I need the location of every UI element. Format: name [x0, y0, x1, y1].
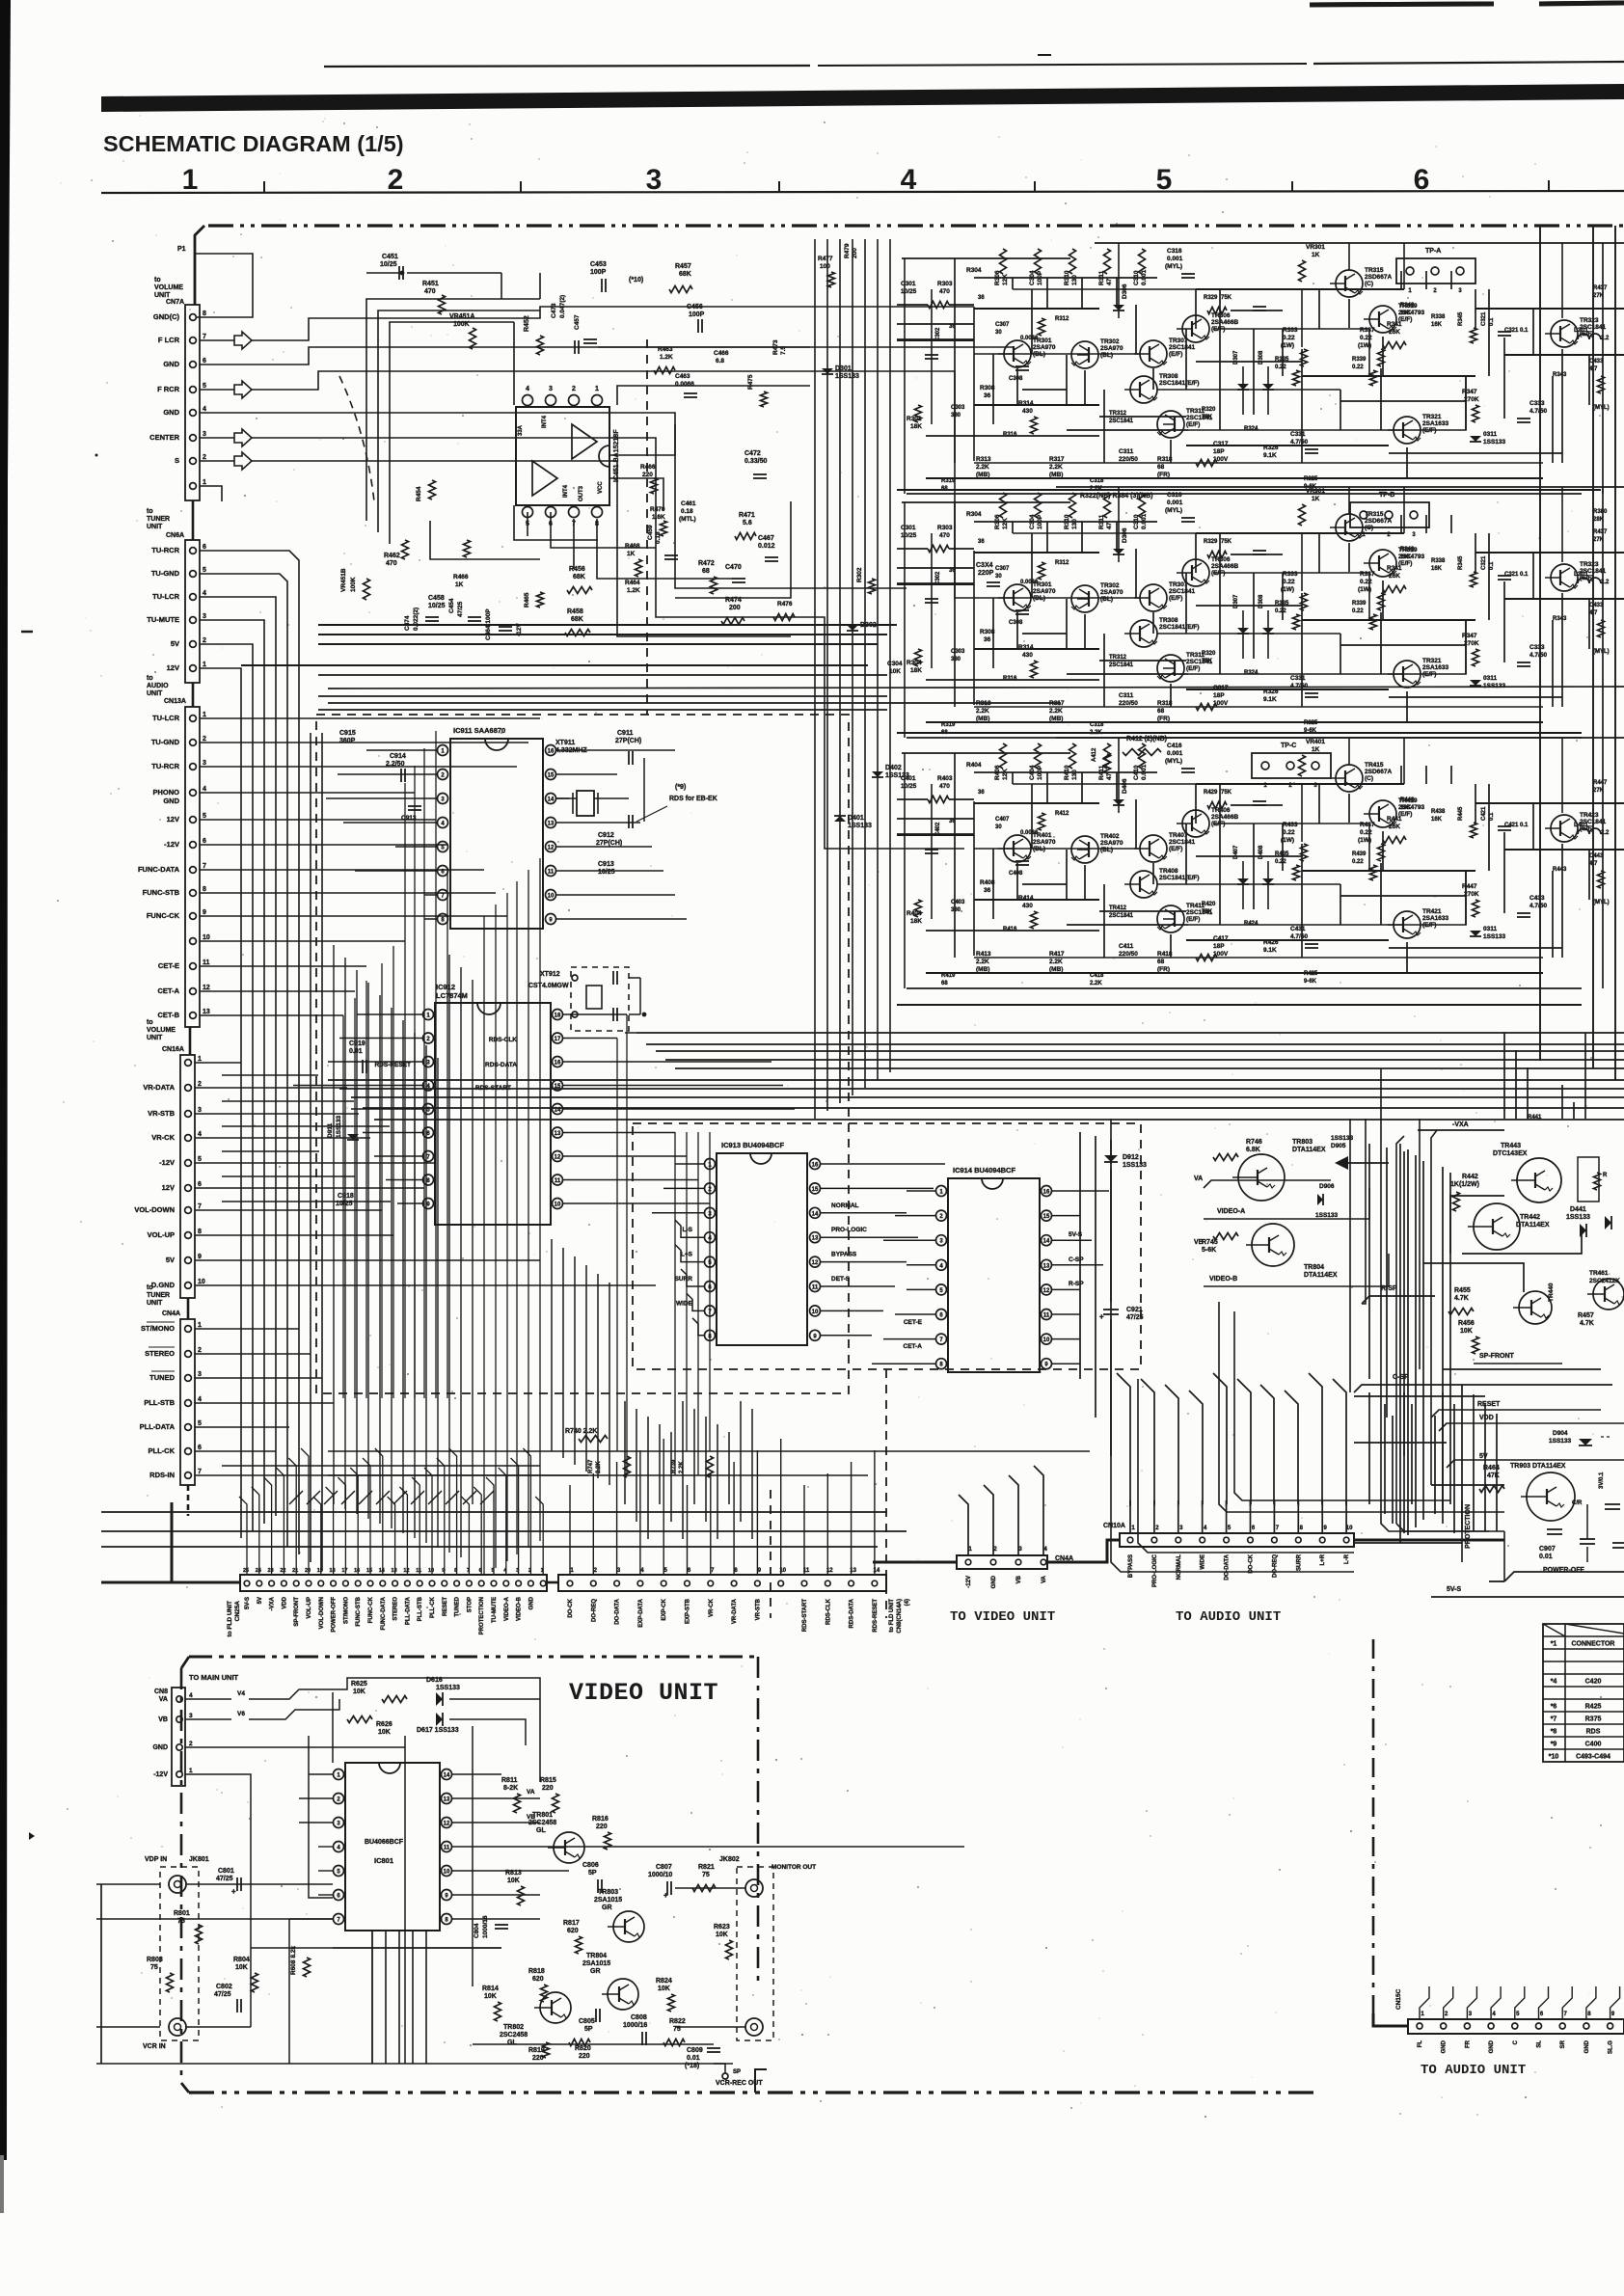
transistor TR315 2SD667A [1336, 270, 1363, 297]
svg-text:6: 6 [198, 1445, 202, 1451]
video unit border bottom right step [755, 2069, 767, 2093]
svg-text:C921: C921 [1126, 1307, 1143, 1313]
svg-text:GR: GR [602, 1904, 612, 1911]
svg-text:to: to [154, 277, 161, 284]
svg-text:IC913 BU4094BCF: IC913 BU4094BCF [721, 1141, 784, 1149]
svg-text:4: 4 [203, 406, 206, 413]
left mid horizontal 1168 [222, 1125, 390, 1127]
svg-text:2SA970: 2SA970 [1100, 840, 1123, 847]
svg-text:R420: R420 [1202, 902, 1216, 907]
CN13A pin 1 TU-LCR [190, 716, 197, 722]
IC913 pin 7 [705, 1306, 716, 1316]
svg-text:INT4: INT4 [563, 484, 569, 498]
wire between connectors [547, 1581, 558, 1584]
svg-text:68: 68 [1157, 464, 1165, 471]
wire CN4A pin7 run [195, 1474, 588, 1476]
svg-text:0.047(2): 0.047(2) [559, 295, 566, 318]
CN15C pin 6 SL [1536, 2023, 1542, 2029]
CN15C pin 3 FR [1464, 2023, 1470, 2029]
svg-text:(MB): (MB) [1049, 716, 1063, 722]
svg-text:47/25: 47/25 [214, 1991, 231, 1998]
svg-text:R338: R338 [1431, 558, 1446, 564]
svg-text:VR-STB: VR-STB [755, 1598, 761, 1620]
wire opamp top rail [501, 273, 502, 299]
CN14A pin 4 [637, 1580, 643, 1586]
left bottom jack column vertical [100, 1884, 102, 2064]
svg-text:5P: 5P [588, 1870, 597, 1877]
IC914 pin 14 [1042, 1235, 1052, 1246]
svg-text:L401: L401 [1574, 822, 1588, 828]
CN25A pin 5 [491, 1580, 497, 1586]
svg-text:-12V: -12V [153, 1771, 168, 1778]
svg-text:VB: VB [1194, 1239, 1204, 1246]
svg-text:470: 470 [939, 532, 950, 539]
IC911 pin 14 [546, 794, 556, 804]
wire to CN14A pin 5 [663, 1439, 664, 1575]
fan diagonal 2 [324, 1491, 338, 1504]
svg-text:TR412: TR412 [1109, 905, 1127, 911]
svg-text:15: 15 [366, 1568, 372, 1574]
wire CN13A pin7 run [200, 869, 484, 871]
table row line 3 [1543, 1661, 1624, 1662]
svg-text:D406: D406 [1122, 778, 1128, 794]
transistor TR306 2SA466B [1182, 559, 1209, 586]
svg-text:TR421: TR421 [1422, 908, 1442, 915]
svg-text:1SS133: 1SS133 [1483, 933, 1506, 940]
svg-text:10: 10 [812, 1310, 819, 1315]
svg-text:DO-REQ: DO-REQ [1272, 1554, 1278, 1578]
svg-text:CN8: CN8 [154, 1688, 168, 1695]
svg-text:L-R: L-R [1344, 1553, 1350, 1564]
resistor R410 130 [1069, 743, 1076, 769]
svg-text:0.0066: 0.0066 [1020, 830, 1039, 836]
svg-text:2: 2 [203, 454, 206, 461]
svg-text:R465: R465 [524, 592, 530, 608]
svg-text:CN16A: CN16A [162, 1046, 184, 1053]
channel left vertical x990 [954, 258, 956, 463]
table row line 10 [1543, 1748, 1624, 1750]
stray mark dot c [95, 454, 98, 457]
op-amp triangle B [532, 461, 557, 496]
CN13A pin 3 TU-RCR [190, 764, 197, 770]
top right corner marks thicker [1310, 4, 1494, 5]
svg-text:-12V: -12V [159, 1158, 175, 1167]
svg-text:VA: VA [527, 1789, 535, 1796]
svg-text:16: 16 [548, 749, 555, 755]
IC913 pin 15 [810, 1183, 821, 1194]
svg-text:27P(CH): 27P(CH) [615, 738, 641, 744]
svg-text:7: 7 [203, 863, 206, 870]
svg-text:12: 12 [812, 1260, 819, 1266]
mid col vertical 584 [562, 1248, 564, 1458]
JK802 wires [675, 1887, 745, 1889]
stray scan mark a [21, 631, 33, 634]
pre-fan vertical 648 [624, 1401, 626, 1504]
CN25A pin 9 [442, 1580, 447, 1586]
resistor R310 130 [1069, 249, 1076, 274]
wire above CN15C pin 9 [1610, 1986, 1620, 2019]
svg-text:UNIT: UNIT [147, 1300, 163, 1307]
svg-text:TR308: TR308 [1159, 373, 1178, 380]
svg-text:C301: C301 [901, 525, 916, 531]
CN16A pin 9 5V [185, 1257, 192, 1264]
channel A extra wire h4 [1186, 445, 1389, 446]
svg-text:0.18: 0.18 [655, 531, 662, 544]
svg-text:75K: 75K [1221, 539, 1232, 545]
svg-text:VCR IN: VCR IN [143, 2043, 166, 2050]
svg-text:16: 16 [1043, 1190, 1050, 1196]
wire CN13A pin3 run [200, 766, 517, 768]
svg-text:FUNC-CK: FUNC-CK [147, 911, 180, 920]
diode D904 1SS133 [1579, 1439, 1592, 1445]
svg-text:VB: VB [158, 1716, 168, 1723]
left extra vertical 12 [472, 980, 474, 1504]
resistor R411 47 [1104, 743, 1111, 769]
svg-text:PLL-DATA: PLL-DATA [405, 1596, 411, 1625]
mid col vertical 608 [585, 1265, 587, 1472]
svg-text:10K: 10K [507, 1877, 520, 1884]
top broken rule line [324, 66, 810, 67]
svg-text:0.01: 0.01 [687, 2055, 700, 2062]
svg-text:0.22: 0.22 [1283, 829, 1295, 836]
video unit inner verticals [371, 1931, 373, 2064]
svg-text:68: 68 [1157, 959, 1165, 965]
svg-text:7: 7 [198, 1469, 202, 1475]
svg-text:DET-S: DET-S [831, 1276, 851, 1283]
svg-text:D616: D616 [426, 1677, 443, 1684]
svg-text:47/25: 47/25 [1126, 1314, 1144, 1321]
svg-text:VR-DATA: VR-DATA [732, 1598, 738, 1624]
channel B pocket mid wires [1067, 673, 1188, 675]
svg-text:1SS133: 1SS133 [1123, 1162, 1147, 1169]
wire TU-GND run [200, 574, 287, 675]
svg-text:R413: R413 [976, 951, 991, 958]
CN7A pin 7 F LCR [190, 338, 197, 344]
svg-text:16K: 16K [1400, 805, 1412, 811]
IC914 right wires [1052, 1190, 1109, 1192]
CN14A pin 14 [872, 1580, 878, 1586]
svg-text:2: 2 [528, 1568, 531, 1574]
protection dense verticals [1368, 1392, 1370, 1504]
svg-text:9.1K: 9.1K [1263, 452, 1277, 459]
CN14A pin 11 [801, 1580, 807, 1586]
protection block bottom wires [1396, 1524, 1504, 1531]
svg-text:CN8(CN14A): CN8(CN14A) [897, 1599, 903, 1634]
transistor TR804 DTA114EX lower [1252, 1224, 1294, 1266]
left extra vertical 4 [379, 995, 381, 1524]
svg-text:R454: R454 [416, 486, 422, 501]
svg-text:R375: R375 [1585, 1716, 1602, 1723]
svg-text:220P: 220P [978, 570, 994, 577]
decoder-down long vertical 1 [1095, 1136, 1096, 1418]
svg-text:DO-DATA: DO-DATA [1225, 1553, 1231, 1580]
svg-text:4: 4 [526, 386, 529, 392]
decoder-down long vertical 4 [1386, 1148, 1388, 1418]
svg-text:2SA1633: 2SA1633 [1422, 915, 1448, 922]
CN25A pin 25 [244, 1580, 250, 1586]
svg-text:9-6K: 9-6K [1304, 979, 1317, 985]
svg-text:0.22: 0.22 [1360, 579, 1372, 585]
wire to CN10A pin 2 [1153, 1500, 1155, 1533]
svg-text:GND: GND [528, 1596, 534, 1609]
svg-text:D402: D402 [885, 765, 902, 771]
svg-text:TR323: TR323 [1580, 561, 1599, 568]
svg-text:0.1: 0.1 [1489, 317, 1495, 326]
heavy trunk line into CN25A extended [101, 1581, 240, 1584]
svg-text:2: 2 [388, 164, 404, 196]
vertical bus wire L6 [298, 675, 300, 1554]
wire CN7A-CN6A stem [192, 500, 195, 540]
channel C extra wire h6 [1196, 783, 1404, 785]
svg-text:C461: C461 [681, 500, 696, 507]
CN14A pin 13 [849, 1580, 854, 1586]
vertical trunk wire T2 [826, 239, 828, 1111]
CN4A-b pin 2 [990, 1559, 996, 1565]
transistor TR319 2SC4793 [1369, 306, 1396, 333]
wire TU-RCR run [200, 551, 299, 675]
wire to CN25A pin 22 [276, 1468, 284, 1575]
svg-text:10K: 10K [484, 1993, 497, 2000]
svg-text:C433: C433 [1529, 895, 1545, 902]
resistor C410 0.001 [1139, 743, 1146, 769]
wire to CN10A pin 9 [1321, 1500, 1323, 1533]
svg-text:SCHEMATIC DIAGRAM (1/5): SCHEMATIC DIAGRAM (1/5) [103, 131, 404, 156]
wire 5V run [200, 644, 253, 675]
svg-text:2: 2 [203, 637, 206, 644]
svg-text:SURR: SURR [675, 1276, 693, 1283]
svg-text:(BL): (BL) [1100, 352, 1113, 359]
svg-text:R479: R479 [844, 243, 851, 258]
svg-text:4.7/50: 4.7/50 [1529, 903, 1547, 909]
svg-text:C318: C318 [1090, 478, 1104, 484]
svg-text:R337: R337 [1360, 571, 1375, 578]
svg-text:RDS-DATA: RDS-DATA [850, 1598, 855, 1628]
svg-text:VIDEO UNIT: VIDEO UNIT [569, 1679, 718, 1707]
svg-text:C907: C907 [1539, 1546, 1556, 1553]
channel A extra resistor Rb [1598, 376, 1605, 393]
svg-text:RDS-IN: RDS-IN [149, 1471, 175, 1479]
svg-text:R816: R816 [592, 1816, 609, 1823]
svg-text:6: 6 [1414, 164, 1430, 196]
channel C extra wire h3 [974, 899, 1099, 901]
IC801 pin 9 [442, 1890, 452, 1901]
fan diagonal 5 [376, 1491, 390, 1504]
svg-text:36: 36 [984, 636, 991, 643]
IC801 pin 5 [334, 1866, 344, 1877]
vertical trunk wire T1 [814, 239, 816, 1119]
IC911 pin 5 [438, 842, 448, 852]
svg-text:UNIT: UNIT [154, 292, 171, 299]
resistor C310 0.001 [1139, 249, 1146, 274]
channel C pocket wires left [897, 798, 928, 800]
svg-text:R821: R821 [698, 1864, 715, 1871]
svg-text:68K: 68K [571, 616, 583, 623]
svg-text:D441: D441 [1570, 1206, 1586, 1213]
CN25A pin 21 [293, 1580, 299, 1586]
wire CN16A pin5 run [195, 1162, 436, 1164]
transistor TR302 2SA970 [1071, 585, 1098, 612]
diode D906 1SS133 [1317, 1194, 1323, 1205]
CN14A pin 10 [778, 1580, 784, 1586]
CN6A long feed wires [318, 624, 897, 626]
svg-text:13: 13 [548, 822, 555, 827]
CN25A pin 19 [318, 1580, 324, 1586]
svg-text:MONITOR OUT: MONITOR OUT [771, 1864, 816, 1871]
svg-text:GL: GL [536, 1827, 546, 1834]
IC912 pin 10 [553, 1199, 563, 1209]
svg-text:C321: C321 [1504, 328, 1519, 334]
wire CN13A pin8 run [200, 892, 496, 894]
channel B extra wire h6 [1196, 532, 1404, 534]
transistor TR323 2SC1841 [1551, 564, 1578, 591]
diode D307 (G247) [1237, 628, 1249, 634]
svg-text:C316: C316 [1167, 492, 1182, 499]
CN25A pin 12 [405, 1580, 411, 1586]
svg-text:2SA1633: 2SA1633 [1422, 420, 1448, 427]
svg-text:430: 430 [1022, 408, 1033, 415]
diodes right pair [1605, 1216, 1611, 1229]
svg-text:18K: 18K [910, 423, 922, 430]
CN15C pin 9 SL.G [1608, 2023, 1613, 2029]
svg-text:1: 1 [198, 1056, 202, 1063]
IC801 pin 2 [334, 1794, 344, 1804]
wire S run [200, 460, 234, 462]
svg-text:VIDEO-A: VIDEO-A [504, 1596, 510, 1621]
svg-text:7: 7 [467, 1568, 470, 1574]
svg-text:(MYL): (MYL) [1165, 758, 1182, 765]
svg-text:VR-STB: VR-STB [148, 1109, 176, 1118]
svg-text:12: 12 [403, 1568, 409, 1574]
svg-text:2SA970: 2SA970 [1100, 589, 1123, 596]
channel A extra resistor Ra [1039, 318, 1045, 336]
svg-text:R-SP: R-SP [1069, 1281, 1084, 1287]
CN8 pin 4 VA [176, 1696, 182, 1702]
channel B mesh horizontals [897, 582, 974, 584]
svg-text:C453: C453 [590, 261, 607, 268]
video mid rail [288, 1919, 290, 2064]
svg-text:R412: R412 [1055, 811, 1069, 817]
svg-text:4.7/50: 4.7/50 [1529, 652, 1547, 659]
svg-text:DO-REQ: DO-REQ [591, 1599, 597, 1622]
wire to CN25A pin 5 [486, 1477, 494, 1575]
dashed curve VR451A [339, 376, 374, 501]
svg-text:15: 15 [1043, 1214, 1050, 1220]
transistor TR311 2SC1841 [1157, 411, 1184, 438]
IC801 pin 12 [442, 1818, 452, 1828]
wire CN16A pin3 run [195, 1113, 359, 1115]
svg-text:R626: R626 [376, 1721, 392, 1728]
scan edge black strip left [0, 0, 11, 2160]
svg-text:JK802: JK802 [719, 1856, 740, 1863]
svg-text:C463: C463 [675, 373, 690, 380]
left mid horizontal 1246 [222, 1201, 391, 1202]
svg-text:C308: C308 [1009, 376, 1023, 382]
stray scan mark b [29, 1832, 35, 1840]
svg-text:SP-FRONT: SP-FRONT [294, 1597, 300, 1627]
right loop wire 7 [1111, 1369, 1354, 1572]
svg-text:(1W): (1W) [1358, 342, 1371, 349]
svg-text:to: to [147, 675, 153, 682]
diode D308 (G247) [1262, 384, 1274, 390]
heavy wire into CN15C [1373, 2013, 1408, 2026]
CN25A pin 18 [331, 1580, 337, 1586]
CN4A-b pin 1 [965, 1559, 971, 1565]
svg-text:R801: R801 [174, 1910, 190, 1917]
svg-text:CET-E: CET-E [904, 1319, 923, 1326]
svg-text:14: 14 [379, 1568, 386, 1574]
svg-text:D.GND: D.GND [151, 1281, 176, 1289]
ruler tick c [778, 181, 780, 192]
mid col vertical 632 [609, 1283, 610, 1485]
svg-text:CN7A: CN7A [166, 299, 184, 306]
channel left vertical x990 [954, 502, 956, 707]
IC914 pin 7 [936, 1334, 947, 1344]
svg-text:0.22: 0.22 [1352, 859, 1364, 865]
svg-text:2SC1841: 2SC1841 [1109, 913, 1134, 919]
svg-text:C411: C411 [1119, 943, 1134, 950]
svg-text:5.6: 5.6 [743, 520, 752, 527]
svg-text:C913: C913 [598, 861, 614, 868]
svg-text:4: 4 [198, 1396, 202, 1403]
CN25A pin 20 [306, 1580, 311, 1586]
svg-text:*9: *9 [1551, 1742, 1557, 1748]
svg-text:47/25: 47/25 [216, 1876, 233, 1882]
connector CN10A [1120, 1533, 1354, 1547]
svg-text:OUT3: OUT3 [579, 485, 584, 501]
CN13A pin 6 -12V [190, 842, 197, 849]
channel A extra wire h2 [1302, 375, 1475, 377]
pre-fan vertical 684 [659, 1424, 661, 1504]
svg-text:D401: D401 [848, 815, 864, 822]
svg-text:R314: R314 [1018, 400, 1034, 407]
CN25A pin 14 [380, 1580, 386, 1586]
svg-text:2SC2412K: 2SC2412K [1589, 1278, 1620, 1284]
mid col vertical 596 [574, 1256, 576, 1465]
transistor TR321 2SA1633 [1394, 417, 1421, 444]
svg-text:V6: V6 [237, 1711, 245, 1717]
channel A extra wire h6 [1196, 288, 1404, 290]
diode D307 (G247) [1237, 384, 1249, 390]
svg-text:10K: 10K [378, 1729, 391, 1736]
channel A extra verticals [1195, 289, 1197, 329]
svg-text:620: 620 [567, 1928, 579, 1934]
CN25A pin 23 [269, 1580, 275, 1586]
svg-text:2SC1841: 2SC1841 [1109, 662, 1134, 668]
svg-text:(MYL): (MYL) [1165, 507, 1182, 514]
pre-fan vertical 756 [728, 1432, 730, 1504]
channel C mesh horizontals [897, 833, 974, 835]
svg-text:2SC1841: 2SC1841 [1169, 588, 1195, 595]
IC912 right wires [563, 1013, 627, 1015]
IC914 pin 9 [1042, 1359, 1052, 1369]
svg-text:R324: R324 [1244, 670, 1259, 676]
wire CN16A-CN4A stem [187, 1298, 190, 1319]
CN14A pin 9 [755, 1580, 761, 1586]
diode D406 wave [1113, 799, 1124, 805]
svg-text:22: 22 [280, 1568, 285, 1574]
gap closers CN10A [1129, 1500, 1131, 1506]
svg-text:1SS133: 1SS133 [1566, 1214, 1590, 1221]
svg-text:1SS133: 1SS133 [848, 823, 872, 829]
ruler tick f [1548, 180, 1550, 191]
table row line 6 [1543, 1698, 1624, 1700]
svg-text:R345: R345 [1458, 555, 1464, 570]
wire above CN4A-b pin 1 [959, 1495, 968, 1555]
svg-text:VOL-UP: VOL-UP [307, 1597, 312, 1619]
svg-text:RDS-RESET: RDS-RESET [873, 1599, 879, 1633]
svg-text:VR401: VR401 [1306, 739, 1325, 745]
transistor TR301 2SA970 [1004, 584, 1031, 611]
